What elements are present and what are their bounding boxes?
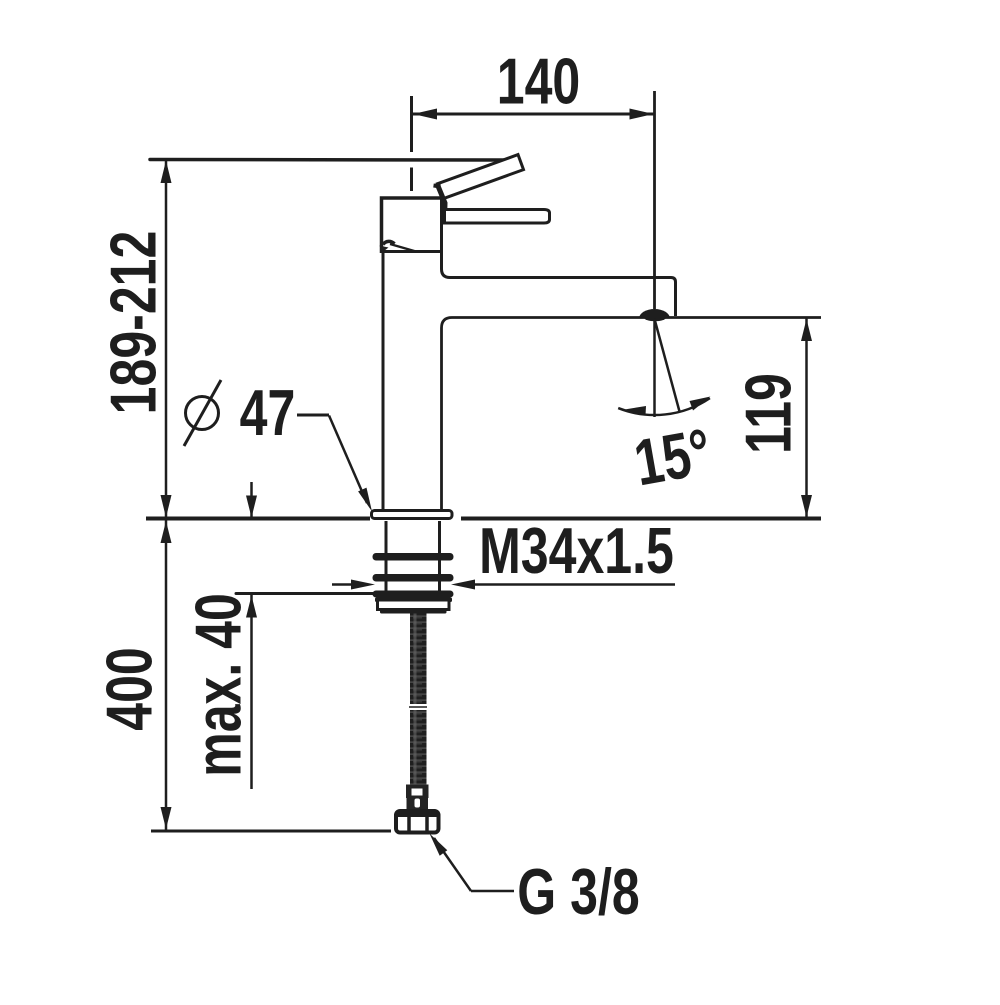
15 degree spray: angled ray [655,319,680,412]
lever handle rest position [445,210,550,224]
faucet body block [382,198,444,253]
max.40 top stub with arrow [250,482,253,517]
svg-text:15°: 15° [629,415,716,500]
extension line right [653,91,656,309]
leader dash for 47 [297,414,329,417]
arc arrow left [625,406,647,416]
shank bottom nut [375,598,452,603]
top reference line (height datum) [150,158,505,162]
water outlet dot [639,309,670,318]
svg-text:189-212: 189-212 [97,231,170,415]
svg-text:400: 400 [93,647,166,731]
outlet reference line + column right edge [442,318,822,512]
dimension 140 line [412,113,654,116]
leader line 47 [329,416,367,504]
arrow right 140 [630,109,654,120]
dimension 189-212 vertical line [165,160,168,519]
svg-text:max. 40: max. 40 [182,593,255,777]
G3/8 end nut [396,811,439,833]
15 degree spray: vertical ray [653,320,656,417]
hose lower fitting [406,785,429,799]
mounting deck line [146,517,370,521]
arrow up 189-212 [161,161,172,184]
shank thread bands [373,553,454,561]
svg-text:G 3/8: G 3/8 [517,856,639,929]
body break mark [383,241,395,244]
arc arrow right [690,397,711,411]
max.40 extension line [236,592,385,595]
max.40 lower line with arrow [250,595,253,789]
svg-text:M34x1.5: M34x1.5 [479,515,674,588]
lever pivot claw [434,186,441,187]
extension line left (dashed) [410,96,413,152]
diameter symbol [186,397,219,430]
body right edge + spout bottom + outlet [442,198,676,316]
leader arrow 47 [358,488,372,512]
flexible hose [410,614,427,788]
column left edge [382,253,385,511]
dimension 119 [805,318,808,518]
400 extension line [151,830,391,833]
arrow down 189-212 [161,495,172,518]
M34 arrows [332,583,352,586]
dimension 400 [165,520,168,830]
svg-text:140: 140 [497,45,581,118]
base plate [372,511,453,519]
angle arc [618,398,710,415]
arrow left 140 [413,109,437,120]
svg-text:47: 47 [240,377,296,450]
G3/8 leader [471,890,514,893]
lever handle raised [437,155,523,199]
threaded shank edges [385,521,388,597]
svg-text:119: 119 [732,373,805,454]
